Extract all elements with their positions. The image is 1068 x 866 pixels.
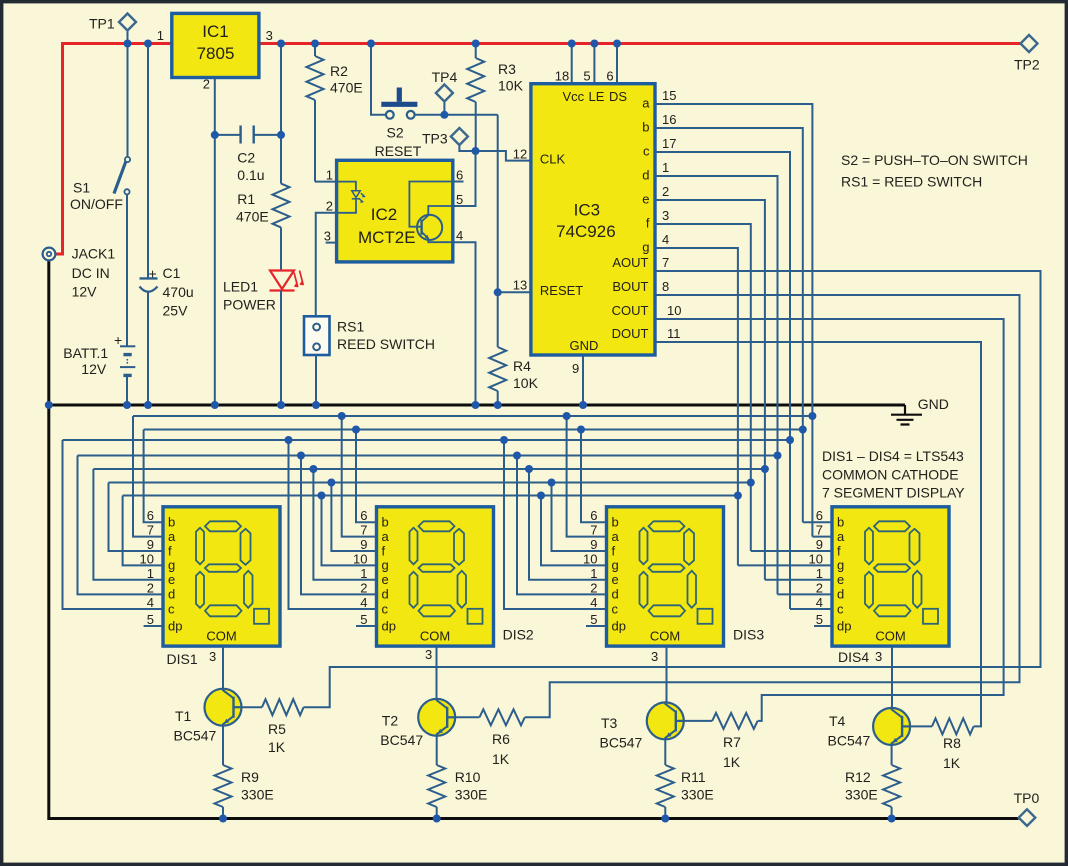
svg-text:3: 3 [209, 649, 216, 664]
wire IC2 pin 3 stub [326, 242, 337, 244]
wire battery to ground rail [126, 375, 128, 405]
svg-text:+: + [114, 332, 122, 348]
wire ground left vertical and bottom rail to TP0 [49, 260, 1019, 818]
resistor R2 470E [307, 44, 363, 182]
wire DIS2 dp pin 5 stub [356, 625, 377, 627]
wire DIS1 dp pin 5 stub [144, 625, 163, 627]
svg-text:6: 6 [360, 508, 367, 523]
wire IC3 LE pin 5 [593, 44, 595, 84]
wire IC3 segment d pin 1 drop to bus and DIS4 [655, 176, 778, 594]
svg-text:d: d [642, 168, 649, 183]
transistor T2 BC547 [380, 699, 455, 748]
wire DIS4 segment e pin 1 feed [765, 579, 832, 581]
svg-text:4: 4 [816, 595, 823, 610]
svg-text:1: 1 [147, 566, 154, 581]
svg-text:dp: dp [382, 618, 396, 633]
wire R1 to LED1 [280, 227, 282, 270]
svg-text:12V: 12V [81, 361, 107, 377]
svg-text:1K: 1K [268, 739, 286, 755]
node R10 to ground rail junction [433, 815, 441, 823]
svg-text:11: 11 [667, 326, 681, 341]
wire DIS1 segment e pin 1 feed [93, 469, 163, 580]
wire DIS1 COM pin 3 to transistor [222, 646, 224, 689]
svg-text:IC3: IC3 [574, 201, 600, 220]
wire S2 to IC3 RESET pin 13 [498, 115, 531, 292]
wire DIS3 segment b pin 6 feed [581, 430, 607, 523]
capacitor C2 0.1u [215, 126, 281, 184]
node R9 to ground rail junction [219, 815, 227, 823]
test point TP0 [1014, 790, 1040, 826]
svg-text:Vcc: Vcc [563, 89, 585, 104]
resistor R4 10K [489, 292, 538, 405]
svg-text:IC2: IC2 [371, 205, 397, 224]
svg-text:RS1 = REED SWITCH: RS1 = REED SWITCH [841, 174, 982, 190]
svg-text:R3: R3 [498, 61, 516, 77]
svg-text:5: 5 [583, 69, 590, 84]
test point TP2 [1014, 35, 1040, 73]
wire DIS2 COM pin 3 to transistor [436, 646, 438, 699]
wire R2 to IC2 pin1 [315, 181, 337, 183]
svg-text:b: b [837, 515, 844, 530]
svg-text:f: f [612, 543, 616, 558]
svg-text:f: f [837, 543, 841, 558]
wire DIS3 COM pin 3 to transistor [666, 646, 668, 702]
svg-text:e: e [382, 572, 389, 587]
svg-text:JACK1: JACK1 [72, 246, 116, 262]
wire IC3 segment a pin 15 drop to bus and DIS4 [655, 104, 812, 537]
svg-text:9: 9 [360, 537, 367, 552]
node R12 to ground rail junction [888, 815, 896, 823]
display DIS4 LTS543 [832, 507, 949, 646]
node TP4 junction [440, 111, 448, 119]
svg-text:1: 1 [816, 566, 823, 581]
wire segment bus c [63, 439, 791, 441]
svg-text:R2: R2 [330, 63, 348, 79]
wire DIS2 segment g pin 10 feed [322, 496, 377, 566]
reed switch RS1 [304, 316, 435, 355]
display DIS1 LTS543 [163, 507, 280, 646]
svg-text:dp: dp [612, 618, 626, 633]
svg-text:BATT.1: BATT.1 [63, 345, 108, 361]
svg-text:5: 5 [590, 612, 597, 627]
svg-text:6: 6 [456, 168, 463, 183]
wire DIS3 segment c pin 4 feed [504, 440, 607, 609]
svg-text:e: e [642, 192, 649, 207]
wire DIS4 segment d pin 2 feed [778, 593, 833, 595]
svg-text:TP4: TP4 [432, 69, 458, 85]
svg-text:R10: R10 [455, 769, 481, 785]
svg-text:a: a [168, 529, 176, 544]
svg-text:17: 17 [662, 136, 676, 151]
wire IC3 segment e pin 2 drop to bus and DIS4 [655, 200, 765, 580]
svg-text:R7: R7 [723, 734, 741, 750]
svg-text:2: 2 [326, 199, 333, 214]
svg-text:T3: T3 [601, 715, 618, 731]
svg-text:BOUT: BOUT [612, 279, 648, 294]
wire DIS3 segment f pin 9 feed [552, 483, 607, 552]
svg-text:b: b [382, 515, 389, 530]
connector JACK1 DC IN 12V [43, 246, 116, 300]
svg-text:b: b [642, 120, 649, 135]
wire DIS2 segment c pin 4 feed [289, 440, 377, 609]
wire COUT pin 10 to T3 base resistor R7 [655, 319, 1004, 721]
svg-text:c: c [382, 601, 389, 616]
wire DIS4 segment b pin 6 feed [803, 521, 832, 523]
svg-text:a: a [382, 529, 390, 544]
svg-text:4: 4 [456, 228, 463, 243]
resistor R6 1K [455, 709, 525, 767]
svg-text:e: e [168, 572, 175, 587]
wire DIS2 segment d pin 2 feed [301, 456, 377, 595]
wire LED1 to ground rail [280, 291, 282, 406]
svg-text:1: 1 [157, 28, 164, 43]
svg-text:f: f [168, 543, 172, 558]
svg-text:IC1: IC1 [202, 22, 228, 41]
svg-text:6: 6 [606, 69, 613, 84]
svg-text:4: 4 [590, 595, 597, 610]
wire DIS1 segment g pin 10 feed [123, 496, 163, 566]
svg-text:COM: COM [206, 629, 236, 644]
svg-text:TP2: TP2 [1014, 57, 1040, 73]
resistor R9 330E [215, 726, 274, 819]
svg-text:12V: 12V [72, 283, 98, 299]
wire IC3 segment g pin 4 drop to bus and DIS4 [655, 248, 738, 565]
svg-text:5: 5 [816, 612, 823, 627]
node junctions on C2 row [211, 131, 219, 139]
svg-text:2: 2 [816, 580, 823, 595]
node junctions on +12V rail [124, 40, 132, 48]
svg-text:R4: R4 [513, 358, 531, 374]
svg-text:330E: 330E [455, 787, 488, 803]
svg-text:R11: R11 [681, 769, 706, 785]
svg-text:470E: 470E [236, 209, 269, 225]
svg-text:R1: R1 [237, 191, 255, 207]
wire segment bus g [123, 495, 738, 497]
svg-text:74C926: 74C926 [556, 222, 616, 241]
svg-text:e: e [837, 572, 844, 587]
wire DIS4 dp pin 5 stub [814, 625, 832, 627]
svg-text:1: 1 [662, 160, 669, 175]
wire TP1 node down to S1 [127, 44, 129, 157]
svg-text:d: d [382, 587, 389, 602]
svg-text:3: 3 [651, 649, 658, 664]
resistor R12 330E [845, 745, 900, 819]
svg-text:1K: 1K [723, 754, 741, 770]
svg-text:2: 2 [360, 580, 367, 595]
transistor T4 BC547 [828, 708, 911, 749]
svg-text:3: 3 [324, 229, 331, 244]
svg-text:c: c [643, 144, 650, 159]
svg-text:T2: T2 [382, 713, 399, 729]
transistor T3 BC547 [600, 702, 684, 750]
svg-text:7: 7 [590, 523, 597, 538]
svg-text:a: a [642, 96, 650, 111]
wire BOUT pin 8 to T2 base resistor R6 [525, 295, 1020, 717]
svg-text:7: 7 [147, 523, 154, 538]
svg-text:b: b [168, 515, 175, 530]
svg-text:6: 6 [147, 508, 154, 523]
svg-text:a: a [612, 529, 620, 544]
svg-text:4: 4 [662, 232, 669, 247]
test point TP1 [89, 14, 136, 44]
svg-text:13: 13 [513, 278, 527, 293]
test point TP3 [422, 128, 476, 151]
svg-text:1K: 1K [943, 755, 961, 771]
svg-text:25V: 25V [163, 303, 189, 319]
svg-text:e: e [612, 572, 619, 587]
svg-text:7: 7 [360, 523, 367, 538]
svg-text:RS1: RS1 [337, 318, 364, 334]
svg-text:COM: COM [420, 629, 450, 644]
svg-text:COUT: COUT [612, 303, 649, 318]
svg-text:GND: GND [918, 396, 949, 412]
svg-text:CLK: CLK [540, 152, 566, 167]
wire IC2 pin 4 to ground rail [453, 242, 476, 405]
svg-text:4: 4 [147, 595, 154, 610]
svg-text:c: c [168, 601, 175, 616]
svg-text:AOUT: AOUT [612, 255, 648, 270]
wire S2 right contact to RESET vertical [415, 114, 498, 116]
svg-text:g: g [837, 558, 844, 573]
regulator IC1 7805 [157, 13, 273, 91]
wire DIS3 segment g pin 10 feed [541, 496, 607, 566]
svg-text:5: 5 [360, 612, 367, 627]
svg-text:COM: COM [650, 629, 680, 644]
svg-text:REED SWITCH: REED SWITCH [337, 336, 435, 352]
svg-text:S1: S1 [73, 180, 90, 196]
svg-text:DC IN: DC IN [72, 265, 110, 281]
svg-text:a: a [837, 529, 845, 544]
svg-text:g: g [382, 558, 389, 573]
svg-text:DOUT: DOUT [612, 326, 649, 341]
wire IC1 pin2 to C2 node and ground [214, 78, 216, 406]
wire DIS1 segment d pin 2 feed [78, 456, 164, 595]
svg-text:BC547: BC547 [828, 733, 871, 749]
wire segment bus e [93, 468, 765, 470]
svg-text:8: 8 [662, 279, 669, 294]
switch S1 ON/OFF [70, 157, 130, 212]
svg-text:f: f [382, 543, 386, 558]
svg-text:16: 16 [662, 112, 676, 127]
transistor T1 BC547 [174, 689, 242, 744]
wire DIS2 segment b pin 6 feed [356, 430, 377, 523]
svg-text:2: 2 [662, 184, 669, 199]
wire DIS1 segment c pin 4 feed [63, 440, 164, 609]
svg-text:RESET: RESET [375, 143, 422, 159]
wire DIS1 segment b pin 6 feed [144, 430, 163, 523]
svg-text:5: 5 [456, 192, 463, 207]
svg-text:1: 1 [326, 168, 333, 183]
svg-text:9: 9 [590, 537, 597, 552]
wire DOUT pin 11 to T4 base resistor R8 [655, 342, 981, 726]
svg-text:470u: 470u [163, 284, 194, 300]
svg-text:LED1: LED1 [223, 279, 258, 295]
svg-text:+: + [149, 266, 157, 282]
svg-text:1K: 1K [492, 751, 510, 767]
resistor R11 330E [657, 739, 714, 818]
wire DIS3 segment e pin 1 feed [529, 469, 607, 580]
svg-text:R5: R5 [268, 721, 286, 737]
svg-text:9: 9 [147, 537, 154, 552]
svg-text:LE: LE [589, 89, 605, 104]
wire AOUT pin 7 to T1 base resistor R5 [304, 271, 1041, 707]
wire DIS4 segment f pin 9 feed [751, 550, 832, 552]
wire DIS3 dp pin 5 stub [586, 625, 607, 627]
svg-text:330E: 330E [681, 787, 714, 803]
svg-text:g: g [168, 558, 175, 573]
wire segment bus a [133, 415, 812, 417]
svg-text:TP3: TP3 [422, 131, 448, 147]
svg-text:10: 10 [353, 551, 367, 566]
svg-text:MCT2E: MCT2E [358, 228, 416, 247]
svg-text:COM: COM [875, 629, 905, 644]
svg-text:GND: GND [570, 338, 599, 353]
svg-text:R8: R8 [943, 735, 961, 751]
wire CLK node to IC2 pin 5 [453, 151, 476, 206]
wire DIS2 segment e pin 1 feed [313, 469, 376, 580]
svg-text:3: 3 [662, 208, 669, 223]
svg-text:DIS4: DIS4 [838, 649, 869, 665]
display DIS2 LTS543 [377, 507, 494, 646]
svg-text:330E: 330E [845, 787, 878, 803]
svg-text:2: 2 [147, 580, 154, 595]
svg-text:BC547: BC547 [174, 728, 217, 744]
svg-text:7: 7 [662, 255, 669, 270]
resistor R5 1K [242, 699, 304, 755]
svg-text:c: c [837, 601, 844, 616]
svg-text:6: 6 [816, 508, 823, 523]
svg-text:10: 10 [809, 551, 823, 566]
wire IC3 Vcc pin 18 [571, 44, 573, 84]
svg-text:1: 1 [590, 566, 597, 581]
svg-text:DIS3: DIS3 [733, 627, 764, 643]
svg-text:1: 1 [360, 566, 367, 581]
svg-text:POWER: POWER [223, 297, 276, 313]
svg-text:6: 6 [590, 508, 597, 523]
wire DIS4 segment c pin 4 feed [790, 608, 832, 610]
LED LED1 POWER [223, 271, 303, 313]
svg-text:S2 = PUSH–TO–ON SWITCH: S2 = PUSH–TO–ON SWITCH [841, 152, 1028, 168]
wire DIS1 segment f pin 9 feed [109, 483, 164, 552]
svg-text:10K: 10K [513, 375, 539, 391]
svg-text:4: 4 [360, 595, 367, 610]
svg-text:0.1u: 0.1u [237, 167, 264, 183]
wire DIS3 segment d pin 2 feed [517, 456, 607, 595]
svg-text:g: g [642, 240, 649, 255]
display DIS3 LTS543 [607, 507, 724, 646]
battery BATT.1 12V [63, 332, 135, 377]
svg-text:BC547: BC547 [380, 732, 423, 748]
svg-text:TP1: TP1 [89, 16, 115, 32]
wire +12V rail to R1 branch [280, 44, 282, 184]
svg-text:BC547: BC547 [600, 735, 643, 751]
svg-text:TP0: TP0 [1014, 790, 1040, 806]
svg-text:R12: R12 [845, 769, 871, 785]
svg-text:COMMON CATHODE: COMMON CATHODE [822, 467, 959, 483]
wire +12V red rail from DC jack to TP2 [55, 44, 1020, 255]
svg-text:d: d [612, 587, 619, 602]
wire CLK node to IC3 pin 12 [476, 151, 531, 161]
wire rail to S2 left contact [371, 44, 386, 115]
node RESET junction [494, 288, 502, 296]
svg-text:10K: 10K [498, 78, 524, 94]
svg-text:C1: C1 [163, 265, 181, 281]
node junctions on upper ground rail [45, 401, 53, 409]
optocoupler IC2 MCT2E [324, 160, 463, 262]
svg-text:12: 12 [513, 147, 527, 162]
svg-text:T4: T4 [829, 713, 846, 729]
wire IC2 pin 6 stub [453, 181, 464, 183]
resistor R8 1K [910, 718, 974, 771]
wire DIS4 COM pin 3 to transistor [891, 646, 893, 708]
svg-text:7: 7 [816, 523, 823, 538]
wire ground upper rail [49, 404, 905, 407]
resistor R10 330E [428, 736, 487, 819]
svg-text:T1: T1 [175, 708, 192, 724]
wire segment bus f [109, 482, 751, 484]
wire IC3 segment b pin 16 drop to bus and DIS4 [655, 128, 803, 522]
svg-text:DS: DS [609, 89, 627, 104]
wire IC3 DS pin 6 [616, 44, 618, 84]
svg-text:R6: R6 [492, 731, 510, 747]
svg-text:d: d [837, 587, 844, 602]
svg-text:3: 3 [266, 28, 273, 43]
svg-text:ON/OFF: ON/OFF [70, 196, 123, 212]
wire DIS3 segment a pin 7 feed [567, 416, 607, 537]
wire IC2 pin2 to RS1 [316, 213, 337, 316]
wire IC3 GND pin 9 to ground rail [582, 355, 584, 405]
svg-text:9: 9 [572, 361, 579, 376]
svg-text:2: 2 [203, 77, 210, 92]
wire DIS4 segment a pin 7 feed [812, 536, 832, 538]
svg-text:3: 3 [875, 649, 882, 664]
svg-text:DIS1: DIS1 [167, 651, 198, 667]
test point TP4 [432, 69, 458, 115]
svg-text:f: f [646, 216, 650, 231]
svg-text:c: c [612, 601, 619, 616]
svg-text:RESET: RESET [540, 283, 583, 298]
capacitor C1 470u 25V [140, 44, 194, 406]
push switch S2 RESET [375, 88, 422, 160]
ground symbol GND [891, 396, 949, 425]
svg-text:10: 10 [140, 551, 154, 566]
svg-text:b: b [612, 515, 619, 530]
wire segment bus b [144, 429, 803, 431]
svg-text:3: 3 [425, 647, 432, 662]
wire DIS2 segment f pin 9 feed [331, 483, 376, 552]
wire IC3 segment f pin 3 drop to bus and DIS4 [655, 224, 751, 551]
node R11 to ground rail junction [661, 815, 669, 823]
svg-text:g: g [612, 558, 619, 573]
svg-text:18: 18 [555, 69, 569, 84]
wire DIS4 segment g pin 10 feed [738, 564, 832, 566]
svg-text:dp: dp [168, 618, 182, 633]
resistor R3 10K [467, 44, 523, 152]
svg-text:7 SEGMENT DISPLAY: 7 SEGMENT DISPLAY [822, 485, 965, 501]
svg-text:9: 9 [816, 537, 823, 552]
wire DIS2 segment a pin 7 feed [342, 416, 377, 537]
svg-text:R9: R9 [241, 769, 259, 785]
resistor R7 1K [684, 713, 758, 770]
wire DIS1 segment a pin 7 feed [133, 416, 163, 537]
svg-text:10: 10 [667, 303, 681, 318]
svg-text:5: 5 [147, 612, 154, 627]
svg-text:S2: S2 [387, 125, 404, 141]
svg-text:2: 2 [590, 580, 597, 595]
svg-text:DIS1 – DIS4 = LTS543: DIS1 – DIS4 = LTS543 [822, 448, 964, 464]
resistor R1 470E [236, 184, 290, 228]
svg-text:dp: dp [837, 618, 851, 633]
